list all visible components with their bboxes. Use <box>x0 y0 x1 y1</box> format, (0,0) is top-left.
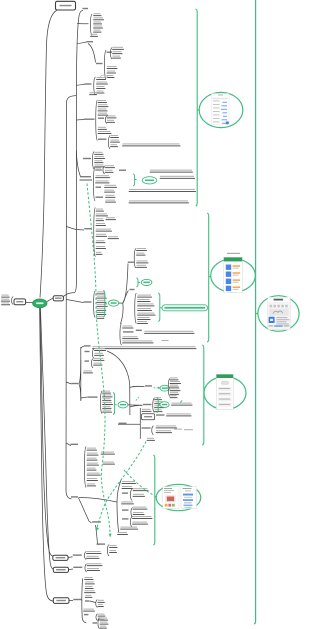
leaf: C8 row6 <box>138 317 150 318</box>
leaf: C11b seg1 <box>174 429 182 430</box>
node: C14a label <box>85 600 90 601</box>
node: C13b label <box>122 509 129 510</box>
leaf: C14 row4 <box>85 590 95 591</box>
node: U4 brace <box>94 77 96 95</box>
node: U5 subbrace <box>105 116 107 124</box>
leaf: U5 row2 <box>98 104 108 105</box>
leaf: n2 row4 <box>155 409 162 410</box>
wire: relationship R3 (dashed to ellipse D) <box>124 470 153 495</box>
leaf: C9 row4 <box>123 340 153 341</box>
leaf: C7 row2 <box>137 260 148 261</box>
leaf: C5 row3 <box>96 180 109 181</box>
leaf: n2 row1 <box>155 397 162 398</box>
leaf: CF row1 <box>97 291 105 292</box>
leaf: C14a row1 <box>98 600 104 601</box>
node: bracket B2 <box>207 213 209 342</box>
node: C14b brace <box>96 614 98 621</box>
image: ellipse D screenshots <box>156 484 201 510</box>
node: summary ellipse e4 <box>160 402 169 408</box>
leaf: C10b row1 <box>94 358 104 359</box>
node: U6 label <box>83 158 91 159</box>
wire: T1 to U4 <box>77 84 85 85</box>
leaf: C6 sub3 <box>106 217 115 218</box>
leaf: C7 row0 <box>137 248 147 249</box>
leaf: C8 row2 <box>138 299 150 300</box>
leaf: U2 row6 <box>91 34 98 35</box>
wire: bt3 to trunk14 <box>81 599 84 601</box>
node: trunkB <box>139 408 141 439</box>
leaf: C10a row2 <box>95 353 104 354</box>
node: topic label U1 <box>83 8 89 9</box>
leaf: U2 row1 <box>94 13 101 14</box>
wire: bundle to C9 label <box>121 303 124 324</box>
node: topic label5 (with underline) <box>80 176 91 177</box>
node: n2 label <box>143 404 152 405</box>
node: C8 green bracket <box>158 293 160 322</box>
leaf: U6 row3 <box>95 160 103 161</box>
node: C14c brace <box>98 618 100 629</box>
leaf: C11b row2 <box>156 430 171 431</box>
node: C10d brace <box>100 391 102 414</box>
node: left fan brace <box>12 297 14 305</box>
node: U3b subbrace <box>110 48 112 60</box>
leaf: C13c row1 <box>133 516 152 517</box>
leaf: CF row7 <box>97 316 104 317</box>
leaf: U3b sub row1 <box>113 47 124 48</box>
wire: label13 to bottom subtree <box>79 498 92 523</box>
node: C9 r2 label <box>123 331 134 332</box>
wire: trunkA to n2 <box>130 405 143 407</box>
node: C10b brace <box>91 359 93 369</box>
leaf: C12 row2 <box>87 453 98 454</box>
node: C7 label <box>128 262 135 263</box>
leaf: left row 3 <box>2 302 10 303</box>
leaf: C9 row1 <box>123 326 133 327</box>
leaf: C13a row2 <box>133 494 144 495</box>
wire: trunk T1 (right topic up to top) <box>63 10 83 296</box>
leaf: C13b row1 <box>133 507 147 508</box>
leaf: C5 sub row1 <box>105 165 114 166</box>
leaf: bt2 row2 <box>87 568 99 569</box>
node: C11b brace <box>152 426 154 435</box>
node: n1 label <box>145 385 152 386</box>
leaf: C5 sub row2 <box>105 170 113 171</box>
leaf: bt1 row1 <box>87 551 101 552</box>
node: U3 label <box>87 41 94 42</box>
leaf: C6 row9 <box>96 252 102 253</box>
leaf: C10 long row <box>93 346 196 347</box>
node: summary ellipse e1 <box>109 300 119 306</box>
node: C5d label <box>96 197 104 198</box>
leaf: C12 row4 <box>87 463 98 464</box>
node: central topic (green ellipse) <box>33 299 47 308</box>
node: C14a brace <box>96 600 98 608</box>
node: trunk13 <box>117 481 121 534</box>
leaf: C13b row2 <box>133 512 144 513</box>
node: bracket B4 <box>153 455 155 545</box>
node: U5 subfan label <box>98 118 104 119</box>
wire: box3 right <box>69 599 73 601</box>
node: bt3 label <box>73 599 82 600</box>
node: C11 box label r <box>156 414 165 415</box>
leaf: C14c row3 <box>100 626 106 627</box>
node: right main topic box <box>53 296 63 301</box>
node: bt1 label <box>73 554 82 555</box>
wire: T1 to U3 <box>77 42 87 44</box>
leaf: n1 row3 <box>170 385 178 386</box>
leaf: C6 row7 <box>96 240 105 241</box>
leaf: U5 row4 <box>98 113 107 114</box>
leaf: C10a row1 <box>95 348 106 349</box>
wire: label13 to trunk13 <box>79 498 117 503</box>
node: C5 green bracket <box>133 174 135 186</box>
wire: e1 to child bundle <box>119 302 123 304</box>
leaf: n2 row3 <box>155 405 164 406</box>
node: R4 dashed arrow <box>154 387 159 389</box>
leaf: U3b row1 <box>107 66 117 67</box>
leaf: U5 sub row2 <box>107 120 114 121</box>
leaf: C12 row1 <box>87 448 96 449</box>
node: summary ellipse e2 <box>141 279 152 285</box>
node: C5c label <box>96 187 102 188</box>
wire: relationship R2 (dashed) <box>97 442 146 529</box>
node: faint wave mark <box>100 75 108 78</box>
leaf: C5 long ext row <box>150 170 192 171</box>
node: C13d brace <box>107 545 109 557</box>
node: label13b <box>92 521 101 522</box>
leaf: C7 row1 <box>137 253 145 254</box>
leaf: C14b row2 <box>98 617 104 618</box>
wire: C14a link <box>90 601 96 603</box>
leaf: U5 row3 <box>98 108 107 109</box>
leaf: C5 row1 <box>96 168 102 169</box>
leaf: C6 row2 <box>96 213 107 214</box>
leaf: U4 row1 <box>97 77 106 78</box>
leaf: n1 row1 <box>170 377 178 378</box>
node: U3b brace <box>104 50 106 79</box>
leaf: U3b row2 <box>107 71 115 72</box>
leaf: left row 2 <box>1 299 9 300</box>
node: C13c brace <box>130 517 132 528</box>
node: n1 fan brace <box>168 379 170 397</box>
node: bt2 label <box>73 567 82 568</box>
node: C6 label <box>84 228 92 229</box>
wire: trunk2 to C10d <box>81 397 88 398</box>
node: trunk14 <box>82 579 86 623</box>
leaf: U2 row3 <box>94 21 102 22</box>
wire: T1 lower bend to label5 <box>76 150 80 177</box>
leaf: U5 sub row1 <box>107 115 116 116</box>
node: summary ellipse e3 <box>118 402 128 408</box>
node: C5 brace <box>93 167 95 201</box>
leaf: C13d row1 <box>110 545 117 546</box>
leaf: n1 row6 <box>170 395 177 396</box>
node: U6 brace <box>92 152 94 170</box>
node: C5b label <box>119 170 126 171</box>
wire: curve central to bottom topic 3 <box>40 308 54 602</box>
leaf: U4 row2 <box>97 82 108 83</box>
node: center label <box>84 301 92 302</box>
leaf: C10d row2 <box>103 394 112 395</box>
node: label12 <box>71 444 79 445</box>
wire: bundle up to C7 <box>123 264 128 304</box>
wire: box2 right <box>69 568 74 571</box>
leaf: C10d row3 <box>103 398 111 399</box>
leaf: e4 long row <box>172 403 192 404</box>
leaf: C14 row2 <box>85 581 94 582</box>
leaf: C12 row8 <box>87 483 95 484</box>
leaf: U5c row3 <box>111 144 118 145</box>
node: n2 fan brace <box>153 398 155 413</box>
node: label11 <box>119 423 127 424</box>
node: C14c label <box>93 622 98 623</box>
leaf: U3b sub row3 <box>113 56 121 57</box>
leaf: n1 row5 <box>170 392 178 393</box>
leaf: U2 row5 <box>94 30 101 31</box>
leaf: C12 row7 <box>87 478 97 479</box>
node: C11b label <box>142 427 151 428</box>
leaf: C5 row2 <box>96 175 110 176</box>
node: U5c brace <box>108 136 110 150</box>
leaf: C13 row3 <box>122 501 134 502</box>
node: C9 brace <box>120 324 122 346</box>
node: R5 dashes <box>136 396 140 400</box>
node: n2 green bracket <box>157 398 159 413</box>
leaf: C8 row5 <box>138 313 155 314</box>
leaf: C9 row3 <box>123 336 138 337</box>
node: C13a label <box>122 492 128 493</box>
leaf: C10d row5 <box>103 406 111 407</box>
leaf: C10b row2 <box>94 363 102 364</box>
node: U5c label <box>98 139 107 140</box>
leaf: C11 row0 <box>142 409 151 410</box>
leaf: C8 row1 <box>138 295 152 296</box>
leaf: U6 row2 <box>95 156 105 157</box>
node: green tick <box>180 400 182 402</box>
leaf: C14c row2 <box>100 622 108 623</box>
leaf: U2 row2 <box>94 17 104 18</box>
node: label10 <box>72 383 79 384</box>
leaf: C14 row1 <box>85 577 93 578</box>
node: C10a brace <box>92 349 94 359</box>
leaf: C14a row2 <box>98 604 103 605</box>
leaf: C10c row <box>84 370 93 371</box>
leaf: C6 row3 <box>96 218 103 219</box>
node: C7 green bracket <box>136 278 138 287</box>
leaf: C11b seg2 <box>184 429 193 430</box>
leaf: C13 row1 <box>122 481 135 482</box>
node: C6 brace <box>94 208 96 257</box>
node: C14b label <box>84 614 89 615</box>
node: C5 sub brace <box>103 166 105 174</box>
leaf: U5c row1 <box>111 135 119 136</box>
leaf: bt2 row1 <box>87 563 102 564</box>
leaf: CF row4 <box>97 304 107 305</box>
leaf: C13 row2 <box>122 486 132 487</box>
leaf: C12 row5 <box>87 468 96 469</box>
wire: label13b down <box>96 525 100 545</box>
leaf: U5c long row <box>123 143 180 144</box>
node: C12 brace <box>84 447 86 488</box>
node: top topic box <box>56 1 76 10</box>
wire: T1 to U5 <box>76 119 84 122</box>
leaf: C6 row4 <box>96 223 105 224</box>
wire: curve central to bottom topic 1 <box>40 308 53 557</box>
leaf: bt1 row2 <box>87 556 99 557</box>
wire: central to left topic <box>26 301 33 304</box>
node: C10a label <box>85 351 90 352</box>
leaf: C11 box row <box>167 413 191 414</box>
leaf: C6 row1 <box>96 209 103 210</box>
leaf: C9 long row <box>145 331 194 332</box>
node: C8 label <box>130 289 135 290</box>
leaf: n2 row2 <box>155 401 163 402</box>
node: U3b subfan label <box>107 52 113 53</box>
node: label13c <box>97 543 106 544</box>
node: bottom box3 <box>53 598 69 604</box>
leaf: C14 row6 <box>84 609 95 610</box>
leaf: C8 row4 <box>138 308 152 309</box>
wire: bundle to C8 label <box>123 291 129 304</box>
wire: spineB to label10 <box>66 382 71 384</box>
leaf: U2 row4 <box>94 26 103 27</box>
leaf: U4 row4 <box>97 91 104 92</box>
leaf: C6 row5 <box>96 229 111 230</box>
leaf: C9 row4b <box>162 340 169 341</box>
node: C13b brace <box>131 508 133 518</box>
leaf: C6 row6 <box>96 234 106 235</box>
leaf: C14 row3 <box>85 586 92 587</box>
leaf: C12 row6 <box>87 473 100 474</box>
node: C10 green bracket <box>113 393 115 415</box>
wire: spineB to cluster6 label <box>66 227 84 231</box>
node: ellipse e5 <box>160 385 170 391</box>
leaf: U5 row5 <box>98 127 106 128</box>
leaf: C13c row2 <box>133 522 148 523</box>
wire: label10 to trunk2 <box>79 360 81 400</box>
node: C10b label <box>85 360 90 361</box>
node: bt2 brace <box>85 564 87 572</box>
wire: trunk2 top to long row <box>81 346 84 348</box>
leaf: C13d row2 <box>110 550 117 551</box>
node: C10 top label <box>84 345 91 346</box>
leaf: C13 row4 <box>121 527 138 528</box>
leaf: C7 row3 <box>137 265 147 266</box>
leaf: C5 summary row1 <box>160 176 194 177</box>
image: circle B screenshot <box>211 259 256 293</box>
leaf: C5 long row B <box>129 200 188 201</box>
node: center fan brace <box>94 291 96 318</box>
wire: curve central to bottom topic 2 <box>40 308 54 570</box>
leaf: U4 row3 <box>97 86 105 87</box>
node: U3b label <box>96 63 103 64</box>
node: trunkA <box>129 384 131 415</box>
leaf: U6 row1 <box>95 152 103 153</box>
node: U5 brace <box>96 100 98 141</box>
leaf: C6 row8 <box>96 246 105 247</box>
leaf: C13 row5 <box>118 532 128 533</box>
node: C9 r2 sublabel <box>136 330 142 331</box>
node: CF green bracket <box>103 291 105 318</box>
node: C8 brace <box>135 293 137 324</box>
wire: relationship R1 (long dashed) <box>87 184 110 535</box>
leaf: U3b sub row2 <box>113 51 122 52</box>
leaf: C14c row1 <box>100 618 107 619</box>
leaf: C12 sub2 <box>101 452 114 453</box>
leaf: left row 1 <box>2 295 9 296</box>
wire: spineB to center label <box>66 300 83 303</box>
wire: central to right topic <box>47 298 53 301</box>
leaf: C5c sub2 <box>105 190 115 191</box>
node: C13a brace <box>130 489 132 501</box>
leaf: C10d row1 <box>103 391 111 392</box>
image: circle E screenshot <box>258 296 299 332</box>
node: C13c label <box>122 518 129 519</box>
node: bracket B5 <box>254 0 256 624</box>
node: U5 label <box>84 119 95 120</box>
leaf: C10d row4 <box>103 402 113 403</box>
wire: e3 to n2 <box>128 404 143 406</box>
leaf: C13a row1 <box>133 488 148 489</box>
leaf: C5 long row A <box>129 189 195 190</box>
leaf: U5 row6 <box>98 131 111 132</box>
wire: box1 right <box>68 556 73 559</box>
leaf: U4b row <box>90 92 97 93</box>
wire: trunkA to n1 <box>130 386 145 387</box>
leaf: CF row6 (green) <box>97 312 106 313</box>
leaf: C11 row bot <box>147 438 154 439</box>
wire: U3 to U3b <box>88 44 96 63</box>
node: C7 upper brace <box>134 249 136 269</box>
leaf: C12 sub4 <box>103 462 114 463</box>
node: bt1 brace <box>84 552 86 560</box>
node: label13 <box>71 496 78 497</box>
leaf: U3b row3 <box>107 75 114 76</box>
leaf: n1 row4 <box>170 388 180 389</box>
wire: T1 to U2 <box>77 23 88 25</box>
leaf: C12 row3 <box>87 458 97 459</box>
node: bracket B1 <box>196 9 198 206</box>
node: green banner (summary topic) <box>162 305 208 311</box>
node: C11 box <box>142 414 155 420</box>
wire: parent to trunkA <box>107 351 130 384</box>
leaf: U5c row2 <box>111 140 120 141</box>
node: U2 fan brace <box>90 14 92 36</box>
leaf: C6 sub6 <box>108 236 118 237</box>
wire: spineB to label12 <box>66 443 71 446</box>
leaf: U6 row4 <box>95 164 104 165</box>
wire: spineB down <box>66 96 76 499</box>
leaf: CF row5 <box>97 308 106 309</box>
leaf: CF row2 <box>97 296 106 297</box>
image: circle A screenshot <box>199 92 243 127</box>
node: C10d label <box>88 396 98 397</box>
leaf: U5 row1 <box>98 100 106 101</box>
wire: curve central to top topic <box>40 10 57 298</box>
wire: to trunkB <box>118 423 140 425</box>
node: U4 label <box>85 83 92 84</box>
leaf: n1 row2 <box>170 381 180 382</box>
node: bottom box2 <box>53 567 68 572</box>
leaf: C5c sub1 <box>105 185 117 186</box>
leaf: C14b row1 <box>98 614 105 615</box>
node: trunk2 <box>80 347 82 401</box>
leaf: C8 row3 <box>138 303 154 304</box>
leaf: C14 row5 <box>85 595 91 596</box>
node: bottom box1 <box>53 555 68 560</box>
leaf: C5d sub1 <box>106 195 115 196</box>
image: circle C screenshot <box>204 377 246 410</box>
